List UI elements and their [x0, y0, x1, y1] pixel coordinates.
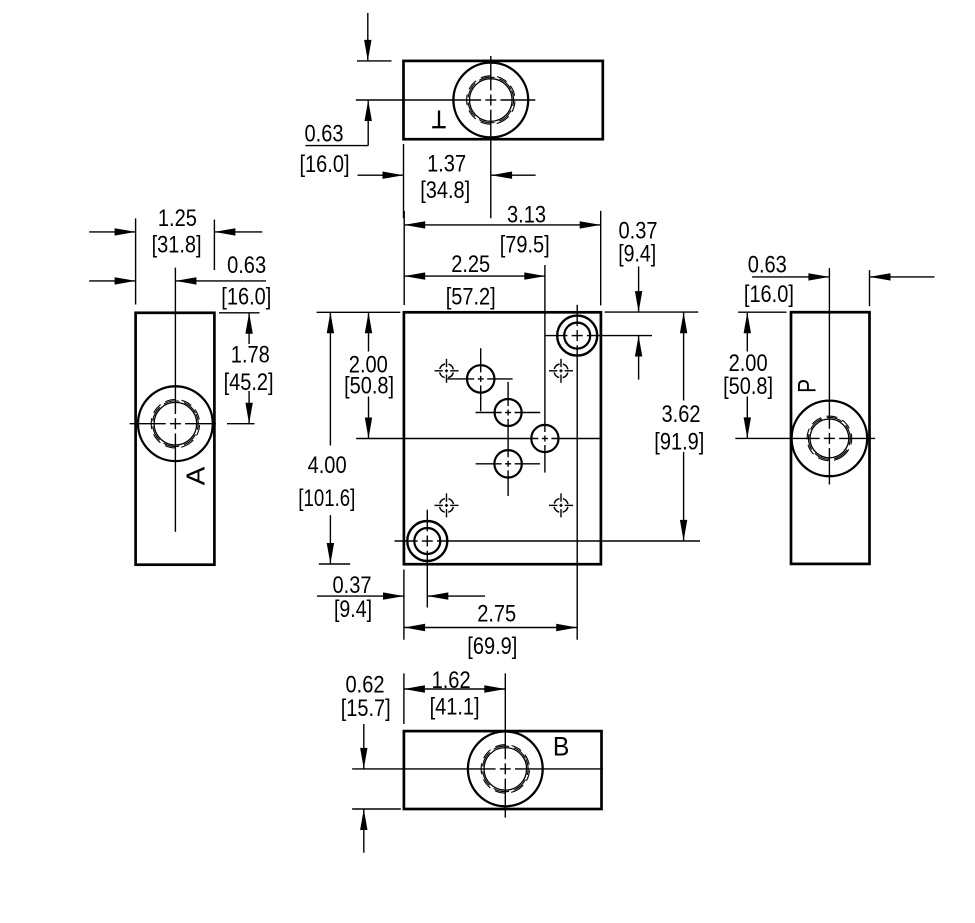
- dim 0.37 bottom left shaft: [317, 595, 404, 597]
- dim 2.00 right upper arrow: [744, 312, 751, 333]
- dim 0.63 right right shaft: [870, 276, 935, 278]
- dim 3.13 right extension: [600, 211, 602, 306]
- dim 1.62 left extension: [403, 673, 405, 724]
- svg-text:0.63: 0.63: [305, 121, 344, 148]
- dim 2.25 left arrow: [404, 272, 425, 279]
- bolt hole bottom-right: [554, 498, 568, 512]
- main left edge lower extension: [403, 570, 405, 640]
- dim 1.78 upper arrow: [245, 313, 252, 334]
- dim 1.78 lower arrow: [245, 403, 252, 424]
- port P centerline vertical / 2.25 extension: [544, 265, 546, 432]
- dim 1.62 line: [404, 688, 505, 690]
- dim 2.75 line: [404, 627, 577, 629]
- dim 4.00 upper shaft: [329, 312, 331, 445]
- dim 1.25 right arrow: [214, 228, 235, 235]
- dim 0.63 top view top-edge extension: [357, 60, 392, 62]
- dim 2.00 left lower shaft: [368, 397, 370, 439]
- dim 0.63 left view right arrow: [175, 277, 196, 284]
- main top edge right extension: [605, 311, 699, 313]
- dim 0.63 top view leader elbow: [367, 100, 369, 146]
- svg-text:[16.0]: [16.0]: [221, 284, 271, 311]
- svg-text:1.62: 1.62: [432, 667, 471, 694]
- corner hole bottom-left inner: [414, 528, 440, 554]
- top view port T tapped hole: [453, 63, 528, 138]
- svg-text:3.13: 3.13: [507, 202, 546, 229]
- dim 2.00 right lower shaft: [746, 397, 748, 439]
- bottom-left hole centerline horizontal: [395, 540, 418, 542]
- svg-text:1.25: 1.25: [158, 205, 197, 232]
- ports B/T shared centerline vertical: [507, 382, 509, 406]
- svg-text:P: P: [794, 379, 822, 393]
- dim 4.00 lower shaft: [329, 515, 331, 564]
- port T centerline horizontal: [476, 463, 502, 465]
- dim 0.63 right right arrow: [870, 273, 891, 280]
- left view top edge extension: [219, 312, 260, 314]
- dim 3.13 right arrow: [580, 221, 601, 228]
- port hole T: [494, 450, 521, 477]
- svg-text:B: B: [553, 732, 570, 762]
- port hole A: [467, 365, 494, 392]
- bottom view port B tapped hole: [468, 732, 543, 807]
- top view vertical centerline: [490, 56, 492, 90]
- dim 4.00 upper arrow: [327, 312, 334, 333]
- dim 0.37 top lower shaft: [638, 336, 640, 380]
- dim 3.62 lower shaft: [683, 452, 685, 541]
- dim 1.25 left shaft: [89, 231, 135, 233]
- svg-text:0.63: 0.63: [748, 252, 787, 279]
- dim 2.00 left upper arrow: [365, 312, 372, 333]
- svg-text:1.78: 1.78: [231, 341, 270, 368]
- dim 0.62 lower arrow: [360, 809, 367, 830]
- port A centerline horizontal: [447, 378, 474, 380]
- bolt hole bottom-left: [440, 498, 454, 512]
- right view horizontal centerline: [735, 437, 819, 439]
- dim 1.62 right arrow: [484, 685, 505, 692]
- dim 3.13 line: [404, 224, 601, 226]
- dim 0.62 upper arrow: [360, 748, 367, 769]
- svg-text:[16.0]: [16.0]: [744, 281, 794, 308]
- svg-text:[50.8]: [50.8]: [723, 373, 773, 400]
- left view port A tapped hole: [138, 386, 213, 461]
- dim 0.63 left view left arrow: [115, 277, 136, 284]
- dim 1.37 left arrow: [383, 172, 404, 179]
- main horizontal centerline: [356, 438, 538, 440]
- port B centerline horizontal: [476, 412, 502, 414]
- dim 2.00 right upper shaft: [746, 312, 748, 351]
- dim 2.75 left arrow: [404, 624, 425, 631]
- bottom-left hole centerline vertical: [426, 510, 428, 532]
- dim 2.25 right arrow: [524, 272, 545, 279]
- dim 1.25 left arrow: [115, 228, 136, 235]
- bolt hole top-left: [440, 364, 454, 378]
- main bottom edge left extension: [319, 563, 350, 565]
- svg-text:3.62: 3.62: [662, 401, 701, 428]
- dim 2.75 right arrow: [556, 624, 577, 631]
- svg-text:[50.8]: [50.8]: [344, 373, 394, 400]
- svg-text:[101.6]: [101.6]: [298, 485, 355, 512]
- svg-text:2.25: 2.25: [451, 251, 490, 278]
- port hole P: [531, 425, 558, 452]
- dim 0.63 right left arrow: [808, 273, 829, 280]
- dim 3.62 upper shaft: [683, 312, 685, 400]
- svg-text:[9.4]: [9.4]: [618, 240, 656, 267]
- right view right edge extension: [869, 270, 871, 306]
- dim 2.00 right lower arrow: [744, 417, 751, 438]
- main view body outline: [404, 312, 601, 564]
- dim 0.62 upper shaft: [363, 724, 365, 769]
- svg-text:[91.9]: [91.9]: [654, 429, 704, 456]
- svg-text:[41.1]: [41.1]: [430, 694, 480, 721]
- bottom view bottom edge extension: [352, 808, 401, 810]
- svg-text:0.63: 0.63: [227, 252, 266, 279]
- corner hole top-right inner: [564, 323, 590, 349]
- left view horizontal centerline: [130, 423, 166, 425]
- dim 3.13 left extension: [403, 211, 405, 305]
- dim 1.37 left shaft: [358, 174, 404, 176]
- port A centerline vertical: [480, 348, 482, 372]
- svg-text:[31.8]: [31.8]: [152, 231, 202, 258]
- top view horizontal centerline: [356, 99, 481, 101]
- svg-text:4.00: 4.00: [308, 452, 347, 479]
- dim 1.25 right shaft: [214, 231, 262, 233]
- dim 0.37 top upper arrow: [635, 291, 642, 312]
- dim 3.62 lower arrow: [680, 520, 687, 541]
- bottom view body outline: [404, 731, 602, 809]
- left view body outline: [136, 313, 215, 565]
- svg-text:[69.9]: [69.9]: [467, 633, 517, 660]
- dim 0.63 top view lower arrow: [365, 100, 372, 121]
- svg-text:A: A: [181, 466, 211, 485]
- main top edge left extension: [317, 311, 401, 313]
- corner hole bottom-left outer: [407, 521, 447, 561]
- svg-text:[9.4]: [9.4]: [334, 596, 372, 623]
- svg-text:2.75: 2.75: [477, 601, 516, 628]
- left view vertical centerline: [174, 268, 176, 414]
- dim 1.37 right arrow: [491, 172, 512, 179]
- dim 0.37 bottom right shaft: [427, 595, 485, 597]
- corner hole top-right outer: [557, 316, 597, 356]
- dim 1.37 right shaft: [491, 174, 535, 176]
- bottom view horizontal centerline: [352, 768, 496, 770]
- svg-text:[57.2]: [57.2]: [446, 284, 496, 311]
- port label T (rotated): [438, 111, 440, 128]
- dim 1.78 lower shaft: [248, 391, 250, 424]
- top-right hole centerline vertical / 2.75 extension: [576, 305, 578, 326]
- dim 2.00 left lower arrow: [365, 418, 372, 439]
- dim 0.63 left view left shaft: [89, 280, 135, 282]
- dim 2.00 left upper shaft: [368, 312, 370, 351]
- svg-text:[15.7]: [15.7]: [341, 695, 391, 722]
- dim 0.63 top view upper shaft: [367, 13, 369, 61]
- dim 1.62 left arrow: [404, 685, 425, 692]
- dim 3.13 left arrow: [404, 221, 425, 228]
- dim 0.37 bottom left arrow: [383, 592, 404, 599]
- dim 1.25 left extension: [135, 218, 137, 304]
- dim 3.62 upper arrow: [680, 312, 687, 333]
- dim 1.25 right extension: [213, 220, 215, 271]
- svg-text:[34.8]: [34.8]: [420, 177, 470, 204]
- right view top edge extension: [738, 311, 786, 313]
- dim 0.62 lower shaft: [363, 809, 365, 853]
- svg-text:[16.0]: [16.0]: [300, 151, 350, 178]
- dim 2.25 line: [404, 275, 545, 277]
- dim 0.37 bottom right arrow: [427, 592, 448, 599]
- dim 4.00 lower arrow: [327, 543, 334, 564]
- dim 0.37 top lower arrow: [635, 336, 642, 357]
- right view body outline: [791, 312, 870, 564]
- svg-text:1.37: 1.37: [427, 151, 466, 178]
- dim 1.78 upper shaft: [248, 313, 250, 344]
- right view vertical centerline: [828, 268, 830, 429]
- right view port P tapped hole: [792, 401, 868, 477]
- svg-text:[45.2]: [45.2]: [224, 369, 274, 396]
- top view body outline: [404, 61, 603, 139]
- dim 1.37 left extension line: [403, 144, 405, 218]
- dim 0.63 right left shaft: [752, 276, 829, 278]
- top-right hole centerline horizontal: [545, 335, 568, 337]
- dim 0.63 top view upper arrow: [364, 40, 371, 61]
- svg-text:0.37: 0.37: [333, 572, 372, 599]
- left view centerline right extension: [227, 423, 255, 425]
- bolt hole top-right: [554, 364, 568, 378]
- svg-text:[79.5]: [79.5]: [500, 231, 550, 258]
- bottom view vertical centerline: [504, 673, 506, 759]
- port hole B: [495, 399, 522, 426]
- dim 0.37 top upper shaft: [638, 267, 640, 313]
- dim 0.63 left view right shaft: [175, 280, 266, 282]
